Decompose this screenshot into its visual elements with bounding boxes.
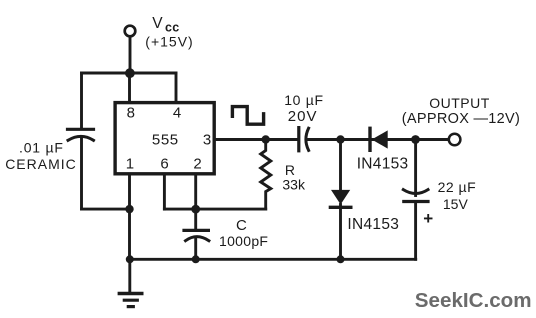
wire pin 3 output line <box>214 138 297 141</box>
wire pin3 line continued <box>309 138 449 141</box>
svg-text:33k: 33k <box>282 176 306 192</box>
svg-text:(APPROX —12V): (APPROX —12V) <box>402 111 520 127</box>
wire 22uF bottom to rail <box>414 202 417 260</box>
wire pin 2 <box>194 174 197 209</box>
node pin3/shunt diode junction <box>336 135 344 143</box>
svg-text:8: 8 <box>127 105 135 122</box>
svg-text:20V: 20V <box>288 108 318 125</box>
output terminal <box>449 134 461 146</box>
wire bypass cap bottom down <box>80 138 83 210</box>
node C ground junction <box>192 255 200 263</box>
wire pin 8 <box>128 73 131 103</box>
svg-text:C: C <box>236 217 247 234</box>
svg-text:OUTPUT: OUTPUT <box>429 95 490 111</box>
resistor R 33k <box>261 140 271 210</box>
wire output junction to 22uF <box>414 140 417 196</box>
svg-text:4: 4 <box>173 105 181 122</box>
wire pin 1 down <box>128 174 131 259</box>
capacitor C 1000pF plates <box>184 230 209 240</box>
svg-text:1: 1 <box>126 156 134 173</box>
svg-text:+: + <box>423 209 433 228</box>
wire left branch down to bypass cap <box>80 73 83 128</box>
wire pin2 node to capacitor C <box>194 209 197 229</box>
node Vcc junction <box>125 68 135 78</box>
svg-text:IN4153: IN4153 <box>357 156 409 173</box>
svg-text:6: 6 <box>160 156 168 173</box>
IC U1 555 timer body <box>115 103 214 174</box>
diode IN4153 series <box>370 128 388 150</box>
capacitor 10uF 20V <box>299 128 309 151</box>
wire bypass cap to pin 1 <box>82 208 130 211</box>
svg-text:.01 µF: .01 µF <box>19 140 64 156</box>
wire Vcc stub <box>129 37 132 73</box>
svg-text:3: 3 <box>203 131 211 148</box>
wire top horizontal <box>82 72 177 75</box>
svg-text:CERAMIC: CERAMIC <box>5 156 77 172</box>
node bypass/pin1 junction <box>125 205 133 213</box>
svg-text:SeekIC.com: SeekIC.com <box>415 289 532 312</box>
svg-text:2: 2 <box>193 156 201 173</box>
wire shunt diode to rail <box>339 205 342 260</box>
node shunt diode ground junction <box>337 255 345 263</box>
square wave symbol <box>232 107 263 125</box>
ground symbol <box>119 259 142 306</box>
svg-text:10 µF: 10 µF <box>284 92 324 108</box>
node pin2/pin6/R junction <box>191 205 200 214</box>
wire pin 4 <box>175 73 178 103</box>
svg-text:V: V <box>152 15 163 32</box>
capacitor .01uF ceramic <box>68 129 94 140</box>
svg-text:1000pF: 1000pF <box>219 233 268 249</box>
node pin3/R junction <box>262 135 270 143</box>
diode IN4153 shunt <box>330 190 350 207</box>
capacitor 22uF 15V <box>403 190 428 202</box>
wire capacitor C to ground rail <box>194 238 197 260</box>
svg-text:555: 555 <box>152 131 179 148</box>
svg-text:IN4153: IN4153 <box>347 216 399 233</box>
wire resistor bottom to pin 2/6 <box>164 208 265 211</box>
Vcc terminal <box>125 26 136 37</box>
svg-text:(+15V): (+15V) <box>145 33 193 49</box>
svg-text:15V: 15V <box>443 196 469 212</box>
wire pin 6 <box>163 174 166 209</box>
wire ground rail <box>130 258 416 261</box>
node ground rail left junction <box>126 255 134 263</box>
svg-text:22 µF: 22 µF <box>438 179 477 195</box>
node output junction <box>411 135 420 144</box>
wire shunt diode branch top <box>339 140 342 191</box>
